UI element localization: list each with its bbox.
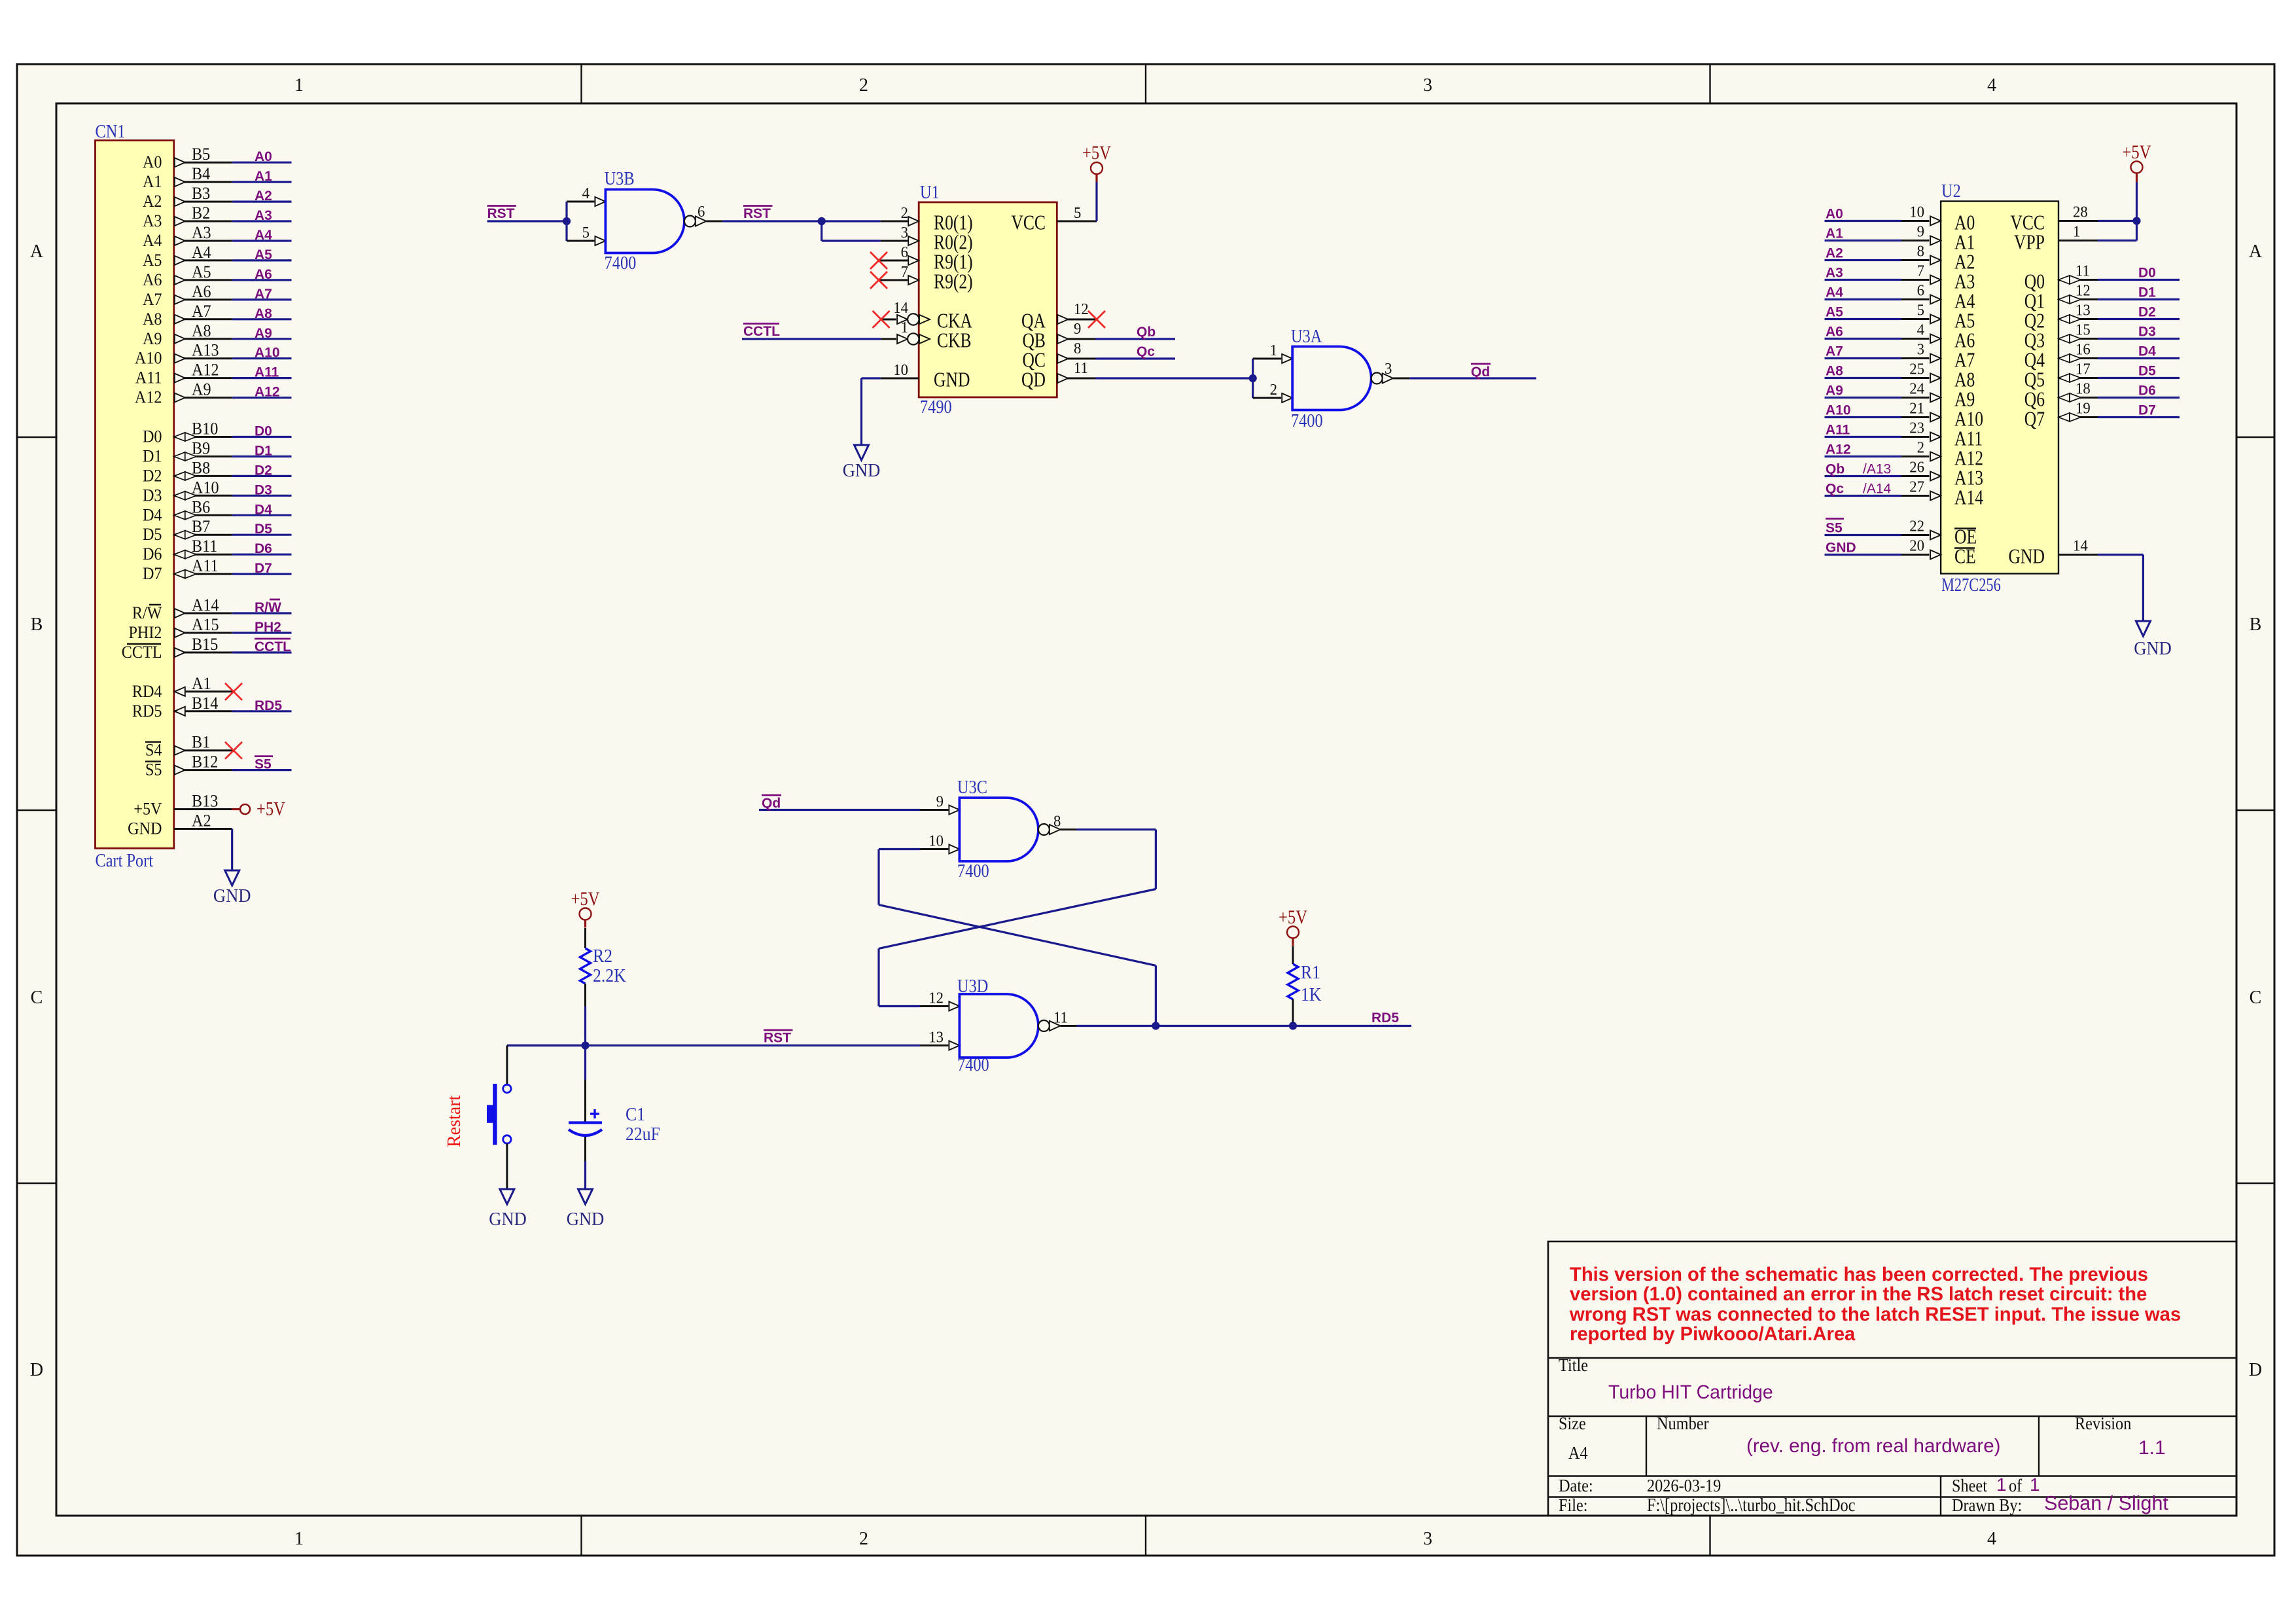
svg-text:CKB: CKB (937, 329, 972, 352)
svg-text:D5: D5 (143, 526, 162, 544)
svg-text:Number: Number (1657, 1414, 1709, 1433)
no-connect X on U1 pin 6 (870, 252, 887, 269)
wire RST node to switch (507, 1044, 586, 1046)
svg-text:B2: B2 (192, 204, 210, 223)
CN1 pin S5 (B12) (145, 753, 232, 779)
junction at U2 VCC (2132, 217, 2140, 224)
svg-text:Qc: Qc (1137, 344, 1155, 359)
svg-text:A5: A5 (192, 263, 211, 281)
U3D input pin 12 (920, 990, 959, 1011)
svg-text:A8: A8 (143, 310, 162, 329)
svg-text:(rev. eng. from real hardware): (rev. eng. from real hardware) (1746, 1435, 2001, 1457)
wire net Qc (1095, 357, 1175, 359)
U2 pin 24 A9 (1901, 380, 1975, 411)
wire net A10 (232, 357, 292, 359)
svg-text:4: 4 (1917, 321, 1925, 339)
svg-text:A3: A3 (255, 208, 272, 223)
U3B input pin 4 (567, 185, 605, 206)
wire net D4 at U2 (2098, 357, 2180, 359)
svg-text:A6: A6 (192, 283, 211, 301)
svg-text:B13: B13 (192, 793, 218, 811)
U1 pin 11 QD (1021, 359, 1095, 391)
U2 pin 2 A12 (1901, 439, 1983, 470)
CN1 pin PHI2 (A15) (128, 616, 232, 642)
wire net A12 into U2 (1825, 455, 1902, 457)
svg-text:D7: D7 (255, 561, 272, 576)
svg-text:CCTL: CCTL (743, 324, 780, 339)
svg-text:12: 12 (1074, 300, 1089, 318)
U1 pin 9 QB (1022, 320, 1095, 352)
U3B input pin 5 (567, 224, 605, 245)
zone divider ticks left (17, 437, 56, 438)
svg-text:B: B (31, 615, 43, 635)
svg-text:D1: D1 (143, 448, 162, 466)
wire net Qb (1095, 338, 1175, 340)
svg-text:1.1: 1.1 (2138, 1437, 2166, 1459)
resistor R1 (1292, 946, 1294, 964)
svg-text:A9: A9 (192, 381, 211, 399)
svg-text:/A14: /A14 (1863, 482, 1892, 497)
svg-text:GND: GND (2009, 545, 2045, 568)
CN1 pin D2 (B8) (143, 459, 232, 486)
CN1 pin A2 (B3) (143, 185, 232, 211)
svg-text:D6: D6 (2138, 383, 2156, 399)
U1 pin 2 R0(1) (881, 204, 973, 234)
title block divider Date|Sheet (1940, 1476, 1941, 1516)
U2 pin 9 A1 (1901, 223, 1975, 254)
svg-text:A14: A14 (1954, 486, 1984, 509)
wire net D2 (232, 475, 292, 477)
svg-text:version (1.0) contained an err: version (1.0) contained an error in the … (1570, 1284, 2147, 1305)
wire net S5 from CN1 (232, 769, 292, 771)
svg-text:26: 26 (1909, 459, 1924, 476)
svg-text:11: 11 (1074, 359, 1088, 377)
junction U3D output feedback (1152, 1022, 1159, 1029)
svg-text:Turbo HIT Cartridge: Turbo HIT Cartridge (1608, 1382, 1773, 1403)
no-connect X on U1 pin 14 (873, 311, 890, 328)
svg-text:Title: Title (1559, 1355, 1588, 1375)
wire net A1 (232, 181, 292, 183)
svg-text:A2: A2 (192, 812, 211, 830)
svg-text:+5V: +5V (2123, 141, 2151, 163)
svg-text:12: 12 (2075, 282, 2091, 300)
nand gate U3B body (605, 190, 684, 253)
wire net QD to U3A (1095, 377, 1253, 379)
svg-text:C1: C1 (626, 1104, 645, 1124)
wire net D1 at U2 (2098, 298, 2180, 300)
svg-text:A1: A1 (143, 173, 162, 191)
U1 pin 8 QC (1022, 340, 1095, 372)
svg-text:+5V: +5V (571, 888, 600, 910)
wire net A2 (232, 201, 292, 203)
svg-text:A4: A4 (1826, 285, 1843, 300)
svg-text:13: 13 (2075, 302, 2091, 319)
wire net A4 into U2 (1825, 298, 1902, 300)
wire net D3 at U2 (2098, 338, 2180, 340)
svg-text:A9: A9 (1826, 383, 1843, 399)
svg-text:D0: D0 (143, 428, 162, 446)
counter U1 body (919, 202, 1057, 397)
svg-text:10: 10 (928, 832, 944, 850)
svg-text:A7: A7 (255, 287, 272, 302)
svg-text:B: B (2250, 615, 2262, 635)
svg-text:7: 7 (1917, 262, 1925, 280)
svg-text:U3C: U3C (957, 777, 987, 797)
wire net A11 (232, 377, 292, 379)
svg-text:6: 6 (1917, 282, 1925, 300)
svg-text:Drawn By:: Drawn By: (1952, 1495, 2022, 1515)
svg-text:1: 1 (2030, 1474, 2040, 1495)
U2 pin 4 A6 (1901, 321, 1975, 352)
svg-text:/A13: /A13 (1863, 462, 1891, 477)
svg-text:U2: U2 (1941, 181, 1961, 201)
svg-text:2: 2 (901, 204, 908, 222)
svg-text:A15: A15 (192, 616, 219, 634)
U3B output pin 6 (684, 203, 723, 226)
wire net A9 into U2 (1825, 397, 1902, 399)
svg-text:RD5: RD5 (255, 698, 282, 713)
svg-text:A2: A2 (1826, 246, 1843, 261)
svg-text:Qd: Qd (1471, 365, 1490, 380)
U2 pin 1 VPP (2014, 223, 2098, 254)
svg-text:D5: D5 (2138, 364, 2156, 379)
svg-text:24: 24 (1909, 380, 1924, 398)
svg-text:RD5: RD5 (132, 702, 162, 721)
svg-text:This version of the schematic: This version of the schematic has been c… (1570, 1264, 2148, 1285)
svg-text:1: 1 (1996, 1474, 2007, 1495)
svg-text:PHI2: PHI2 (128, 624, 162, 642)
svg-text:B8: B8 (192, 459, 210, 478)
svg-text:5: 5 (1917, 302, 1924, 319)
CN1 pin D1 (B9) (143, 440, 232, 466)
wire net A7 (232, 298, 292, 300)
power +5V above U2 (2136, 173, 2138, 182)
nand gate U3C body (959, 798, 1038, 861)
svg-text:D3: D3 (255, 482, 272, 497)
no-connect X on RD4 (225, 683, 242, 700)
svg-text:CCTL: CCTL (255, 639, 291, 654)
U2 pin 6 A4 (1901, 282, 1975, 313)
U2 pin 16 Q4 (2024, 341, 2098, 372)
svg-text:8: 8 (1053, 813, 1061, 830)
svg-text:7400: 7400 (605, 253, 637, 273)
svg-text:9: 9 (1074, 320, 1081, 338)
U2 pin 25 A8 (1901, 361, 1975, 391)
wire net A8 into U2 (1825, 377, 1902, 379)
svg-text:RD4: RD4 (132, 683, 162, 701)
U1 pin 12 QA (1021, 300, 1095, 332)
U1 pin 5 VCC (1011, 204, 1097, 234)
svg-text:11: 11 (1053, 1009, 1068, 1027)
svg-text:U1: U1 (920, 182, 940, 202)
U2 pin 26 A13 (1901, 459, 1983, 490)
svg-text:R1: R1 (1301, 962, 1320, 982)
svg-text:A12: A12 (1826, 442, 1851, 457)
svg-text:C: C (31, 988, 43, 1008)
svg-text:U3D: U3D (957, 976, 988, 996)
wire +5V to U1 VCC (1095, 182, 1097, 221)
svg-text:Date:: Date: (1559, 1476, 1593, 1495)
svg-text:D1: D1 (255, 444, 272, 459)
svg-text:1: 1 (901, 319, 908, 336)
CN1 pin D5 (B7) (143, 518, 232, 544)
wire CN1 GND down (231, 829, 233, 871)
svg-text:28: 28 (2073, 204, 2088, 221)
svg-text:A1: A1 (192, 675, 211, 693)
svg-text:18: 18 (2075, 380, 2091, 398)
svg-text:A6: A6 (143, 271, 162, 289)
U2 pin 7 A3 (1901, 262, 1975, 293)
svg-text:A7: A7 (143, 291, 162, 309)
svg-text:D3: D3 (2138, 325, 2156, 340)
CN1 pin A11 (A12) (135, 361, 232, 387)
wire net D6 (232, 554, 292, 556)
wire net D7 at U2 (2098, 416, 2180, 418)
svg-text:A2: A2 (255, 188, 272, 204)
CN1 pin A1 (B4) (143, 165, 232, 191)
wire net D6 at U2 (2098, 397, 2180, 399)
svg-text:A3: A3 (143, 212, 162, 230)
wire net GND into U2 CE (1825, 554, 1902, 556)
CN1 pin A6 (A5) (143, 263, 232, 289)
svg-text:A9: A9 (255, 326, 272, 341)
svg-text:10: 10 (893, 361, 908, 379)
svg-text:A0: A0 (1826, 207, 1843, 222)
svg-text:Seban / Slight: Seban / Slight (2044, 1492, 2168, 1514)
wire C1 to ground (584, 1161, 586, 1188)
svg-text:A0: A0 (255, 149, 272, 164)
svg-text:B11: B11 (192, 537, 217, 556)
svg-text:1: 1 (1270, 342, 1277, 359)
CN1 pin D3 (A10) (143, 479, 232, 505)
svg-text:A10: A10 (192, 479, 219, 497)
CN1 pin RD4 (A1) (132, 675, 234, 701)
wire net A6 (232, 279, 292, 281)
nand gate U3A body (1292, 347, 1371, 410)
svg-text:RST: RST (764, 1031, 791, 1046)
svg-text:A3: A3 (192, 224, 211, 242)
svg-text:3: 3 (1423, 75, 1432, 96)
svg-text:A4: A4 (1568, 1443, 1588, 1463)
svg-text:A14: A14 (192, 596, 219, 615)
svg-text:Size: Size (1559, 1414, 1586, 1433)
ground symbol under C1 (578, 1189, 593, 1204)
svg-text:+5V: +5V (256, 798, 285, 819)
svg-text:A11: A11 (255, 365, 279, 380)
svg-text:M27C256: M27C256 (1941, 575, 2001, 596)
svg-text:S4: S4 (145, 741, 162, 760)
svg-text:GND: GND (1826, 541, 1856, 556)
no-connect X on S4 (225, 742, 242, 759)
svg-text:S5: S5 (255, 757, 272, 772)
svg-text:3: 3 (1917, 341, 1924, 359)
wire net A0 (232, 162, 292, 164)
svg-text:GND: GND (934, 368, 970, 391)
svg-text:A12: A12 (135, 389, 162, 407)
svg-text:File:: File: (1559, 1495, 1588, 1515)
svg-text:A: A (30, 241, 44, 262)
wire net RST-bar into U3D pin 13 (507, 1044, 920, 1046)
svg-text:B6: B6 (192, 499, 210, 517)
CN1 pin A3 (B2) (143, 204, 232, 230)
svg-text:A4: A4 (143, 232, 162, 250)
svg-text:B9: B9 (192, 440, 210, 458)
wire net A3 (232, 220, 292, 222)
wire net Qb into U2 (1825, 475, 1902, 477)
wire net A2 into U2 (1825, 259, 1902, 261)
U3D input pin 13 (920, 1029, 959, 1050)
wire R2 to RST node (584, 1007, 586, 1046)
svg-text:3: 3 (1423, 1529, 1432, 1549)
svg-text:D6: D6 (255, 541, 272, 556)
svg-text:D4: D4 (2138, 344, 2156, 359)
svg-text:GND: GND (213, 885, 251, 906)
svg-text:A8: A8 (1826, 364, 1843, 379)
svg-text:R/W: R/W (132, 604, 162, 622)
svg-text:+5V: +5V (1279, 906, 1307, 928)
svg-text:D: D (2249, 1360, 2262, 1380)
title block row line under Title (1548, 1416, 2236, 1417)
title block row line under Size/Number (1548, 1475, 2236, 1476)
svg-text:Cart Port: Cart Port (95, 850, 153, 870)
svg-text:22: 22 (1909, 518, 1924, 535)
capacitor C1 (584, 1080, 586, 1122)
svg-text:GND: GND (128, 820, 162, 838)
svg-text:6: 6 (698, 203, 705, 221)
svg-text:wrong RST was connected to the: wrong RST was connected to the latch RES… (1569, 1304, 2181, 1325)
svg-text:A3: A3 (1826, 266, 1843, 281)
svg-text:A11: A11 (135, 369, 162, 387)
wire net D2 at U2 (2098, 318, 2180, 320)
svg-text:1: 1 (294, 1529, 304, 1549)
U3C output pin 8 (1038, 813, 1077, 835)
svg-text:of: of (2009, 1476, 2022, 1495)
title block row line under note (1548, 1357, 2236, 1359)
svg-text:R2: R2 (593, 946, 612, 966)
U2 pin 15 Q3 (2024, 321, 2098, 352)
svg-text:C: C (2250, 988, 2262, 1008)
svg-text:B7: B7 (192, 518, 210, 536)
wire net A7 into U2 (1825, 357, 1902, 359)
svg-text:CCTL: CCTL (122, 643, 162, 662)
CN1 pin CCTL (B15) (122, 635, 232, 662)
svg-text:reported by Piwkooo/Atari.Area: reported by Piwkooo/Atari.Area (1570, 1324, 1856, 1345)
svg-text:7400: 7400 (1291, 410, 1323, 431)
U2 pin 27 A14 (1901, 478, 1984, 509)
svg-text:A8: A8 (192, 322, 211, 340)
CN1 pin D4 (B6) (143, 499, 232, 525)
svg-text:A5: A5 (143, 251, 162, 270)
wire net A9 (232, 338, 292, 340)
svg-text:7490: 7490 (920, 397, 952, 417)
svg-text:Restart: Restart (444, 1095, 465, 1147)
svg-text:19: 19 (2075, 400, 2091, 418)
svg-text:17: 17 (2075, 361, 2091, 378)
svg-text:Qb: Qb (1826, 462, 1845, 477)
U1 pin 10 GND (881, 361, 970, 391)
wire net D5 at U2 (2098, 377, 2180, 379)
U2 pin 10 A0 (1901, 204, 1975, 234)
CN1 pin A9 (A8) (143, 322, 232, 348)
title block outline (1548, 1241, 2236, 1516)
svg-text:Sheet: Sheet (1952, 1476, 1987, 1495)
wire U3C.8 to U3D.12 cross link (1076, 829, 1156, 830)
svg-text:1K: 1K (1301, 984, 1322, 1005)
svg-text:9: 9 (936, 793, 944, 811)
U2 pin 18 Q6 (2024, 380, 2098, 411)
svg-text:B14: B14 (192, 694, 219, 713)
CN1 pin D0 (B10) (143, 420, 232, 446)
svg-text:QD: QD (1021, 368, 1046, 391)
svg-text:2: 2 (859, 75, 868, 96)
svg-text:B5: B5 (192, 145, 210, 164)
svg-text:21: 21 (1909, 400, 1924, 418)
svg-text:+5V: +5V (133, 800, 162, 819)
wire net A8 (232, 318, 292, 320)
U1 pin 6 R9(1) (879, 243, 973, 274)
svg-text:A4: A4 (255, 228, 272, 243)
nand gate U3D body (959, 994, 1038, 1058)
svg-text:22uF: 22uF (626, 1124, 660, 1144)
wire U3D.11 to U3C.10 cross link (1155, 965, 1157, 1026)
U2 pin 3 A7 (1901, 341, 1975, 372)
svg-text:A7: A7 (192, 302, 211, 321)
svg-text:D1: D1 (2138, 285, 2156, 300)
wire net D5 (232, 534, 292, 536)
svg-text:A6: A6 (255, 267, 272, 282)
title block divider Size|Number (1646, 1416, 1647, 1476)
wire net R/W (232, 612, 292, 614)
svg-text:S5: S5 (145, 761, 162, 779)
svg-text:A11: A11 (192, 557, 219, 575)
wire net S5 into U2 (1825, 534, 1902, 536)
ground symbol under U1 (855, 445, 869, 460)
svg-text:D3: D3 (143, 487, 162, 505)
svg-text:7400: 7400 (957, 861, 989, 881)
power +5V at CN1 (232, 808, 240, 810)
U2 pin 11 Q0 (2024, 262, 2098, 293)
svg-text:D7: D7 (143, 565, 162, 583)
svg-text:Qc: Qc (1826, 482, 1844, 497)
svg-text:D4: D4 (143, 507, 162, 525)
svg-text:2026-03-19: 2026-03-19 (1647, 1476, 1721, 1495)
wire net D1 (232, 455, 292, 457)
U3C input pin 9 (920, 793, 959, 815)
wire net PH2 (232, 632, 292, 633)
U3C input pin 10 (920, 832, 959, 854)
svg-text:PH2: PH2 (255, 620, 281, 635)
svg-text:A5: A5 (1826, 305, 1843, 320)
svg-text:D4: D4 (255, 502, 272, 517)
svg-text:D0: D0 (2138, 266, 2156, 281)
CN1 pin +5V (B13) (133, 793, 232, 819)
wire net Qc into U2 (1825, 495, 1902, 497)
svg-text:D7: D7 (2138, 403, 2156, 418)
svg-text:A11: A11 (1826, 423, 1850, 438)
wire net A5 into U2 (1825, 318, 1902, 320)
svg-text:A10: A10 (255, 346, 280, 361)
U3D output pin 11 (1038, 1009, 1077, 1031)
svg-text:VCC: VCC (1011, 211, 1046, 234)
wire net D7 (232, 573, 292, 575)
U2 pin 23 A11 (1901, 419, 1983, 450)
wire net A12 (232, 397, 292, 399)
wire net RST from U3B to U1 (722, 220, 880, 222)
svg-text:27: 27 (1909, 478, 1924, 496)
svg-text:RST: RST (743, 206, 771, 221)
CN1 pin D6 (B11) (143, 537, 232, 563)
CN1 pin A10 (A13) (135, 342, 232, 368)
